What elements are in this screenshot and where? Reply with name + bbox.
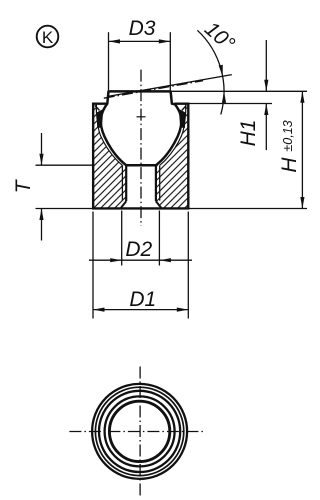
svg-text:T: T bbox=[12, 178, 35, 193]
svg-text:D3: D3 bbox=[129, 17, 156, 40]
svg-text:D2: D2 bbox=[125, 238, 152, 261]
svg-text:K: K bbox=[42, 28, 54, 47]
svg-text:D1: D1 bbox=[129, 288, 156, 311]
svg-text:H1: H1 bbox=[237, 120, 260, 147]
